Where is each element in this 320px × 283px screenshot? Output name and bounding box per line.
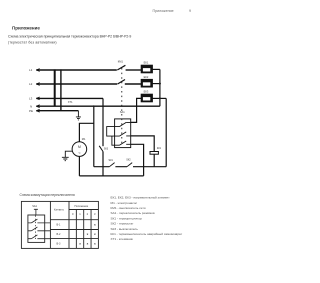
wire L3 [36,97,103,99]
table divider switch column [49,201,51,248]
heater EK2 body [141,79,152,87]
switch contact a [28,219,51,223]
SA1 contact 2 [115,132,131,136]
svg-text:ЕК3: ЕК3 [144,90,149,94]
arrow PE [36,109,39,112]
wire SA1 c2 to fuse [131,136,155,167]
selector SA1 box [115,119,131,148]
svg-text:SК2: SК2 [126,159,131,162]
svg-text:ХТ1: ХТ1 [68,100,73,104]
table row lines [50,220,98,239]
svg-text:(термостат без автоматики): (термостат без автоматики) [8,41,57,45]
table divider label column [68,201,70,248]
wire motor branch [79,123,93,142]
switch contact b [28,227,51,231]
svg-text:2: 2 [87,212,89,216]
switch symbol link dashed [35,216,37,240]
heater EK3 body [141,94,152,102]
arrow L2 [36,83,39,86]
thermal cutout SK3 blade [99,146,103,152]
svg-text:0: 0 [72,212,74,216]
wire heater common vertical [159,69,161,106]
SA1 contact 3 [115,141,131,145]
SA1 contact 1 [115,122,131,126]
wire SA1 c1 to EK3 [131,98,142,122]
wire SA1 c3 down [131,144,144,176]
switch symbol shaft [34,209,38,215]
svg-text:3: 3 [94,212,96,216]
switch KM1 pole 1 blade [117,65,125,70]
svg-text:Приложение: Приложение [153,9,174,13]
wire L3 drop lower [102,152,104,176]
wire N drop [93,106,95,167]
switch contact c [28,235,51,239]
heater EK3 inner [143,97,150,100]
svg-text:х: х [94,223,96,227]
svg-text:ХТ1 - клеммник: ХТ1 - клеммник [111,237,134,241]
svg-text:SА1: SА1 [32,205,37,208]
svg-text:SК1 - терморегулятор: SК1 - терморегулятор [111,216,143,220]
svg-text:Схема электрическая принципиал: Схема электрическая принципиальная термо… [8,35,131,39]
motor M1 circle [72,142,87,157]
wire L3 drop [102,98,104,146]
ground PE bars [76,117,81,120]
fuse KK1 [150,152,158,155]
svg-text:х: х [94,241,96,245]
mechanical link dashed KM1-SA1 [121,68,123,145]
switch symbol box [28,215,45,242]
svg-text:КК1: КК1 [157,147,162,150]
wire EK1 right [152,68,160,70]
svg-text:SК2 - термостат: SК2 - термостат [111,222,135,226]
junction dot N [93,105,95,107]
svg-text:М1 - электронасос: М1 - электронасос [111,201,138,205]
wire motor bottom [78,156,80,176]
svg-text:Схема коммутации переключателя: Схема коммутации переключателя [20,193,75,197]
switch KM1 pole 2 blade [118,80,125,85]
heater EK2 inner [143,82,150,85]
wire EK3 down right side [165,98,167,166]
terminal block XT1 left bar [54,69,56,106]
svg-text:SК3: SК3 [104,147,109,150]
svg-text:х: х [87,232,89,236]
SA1 left bracket B [112,136,115,145]
thermostat SK1 blade [109,163,114,167]
svg-text:х: х [79,241,81,245]
svg-text:SК1: SК1 [109,159,114,162]
ground PE stub [77,111,79,117]
wire N [36,105,160,107]
SA1 left bracket A [107,127,115,137]
thermostat rail [94,166,166,168]
svg-text:Приложение: Приложение [12,26,40,31]
wire L1 after switch to EK1 [126,69,142,71]
svg-text:В-1: В-1 [57,224,62,227]
wire EK3 right [152,97,166,99]
svg-text:L1: L1 [29,68,33,72]
table header underline [69,209,98,211]
svg-text:L2: L2 [29,82,33,86]
svg-text:9: 9 [189,9,191,13]
svg-text:SК3 - выключатель: SК3 - выключатель [111,227,139,231]
heater EK1 inner [143,68,150,71]
wire L2 after switch to EK2 [125,83,141,85]
svg-text:SА1 - переключатель режимов: SА1 - переключатель режимов [111,211,155,215]
table outer border [21,201,98,248]
ground motor bars [62,157,69,160]
arrow N [36,105,39,108]
svg-text:Контакты: Контакты [54,210,64,212]
svg-text:В-2: В-2 [57,233,62,236]
wire PE [36,110,78,112]
svg-text:КМ1 - выключатель сети: КМ1 - выключатель сети [111,206,146,210]
svg-text:В-3: В-3 [57,242,62,245]
thermostat SK2 blade [127,163,132,167]
wire EK2 right [152,83,160,85]
svg-text:ЕК2: ЕК2 [144,75,149,79]
junction dot EK2 [159,83,161,85]
svg-text:SА1: SА1 [120,110,125,114]
svg-text:КМ1: КМ1 [118,59,124,63]
terminal block XT1 right bar [60,69,62,110]
svg-text:Положение: Положение [75,204,89,208]
arrow L1 [36,69,39,72]
junction dot EK3 [159,97,161,99]
bottom rail [79,175,143,177]
svg-text:~: ~ [78,151,81,156]
svg-text:М: М [78,145,81,149]
svg-text:х: х [87,241,89,245]
table position subdividers [76,210,91,249]
wire L1 [36,69,117,71]
svg-text:М1: М1 [82,137,86,141]
svg-text:х: х [94,232,96,236]
ground motor stub [65,151,72,157]
svg-text:ЕК1: ЕК1 [144,61,149,65]
svg-text:PE: PE [29,109,33,113]
svg-text:КК1 - термовыключатель аварийн: КК1 - термовыключатель аварийный самовоз… [111,232,183,236]
svg-text:1: 1 [79,212,81,216]
svg-text:N: N [30,104,32,108]
arrow L3 [36,97,39,100]
heater EK1 body [141,65,152,73]
svg-text:L3: L3 [29,97,33,101]
svg-text:ЕК1, ЕК2, ЕК3 - нагревательный: ЕК1, ЕК2, ЕК3 - нагревательный элемент [111,196,171,200]
wire L2 [36,83,117,85]
